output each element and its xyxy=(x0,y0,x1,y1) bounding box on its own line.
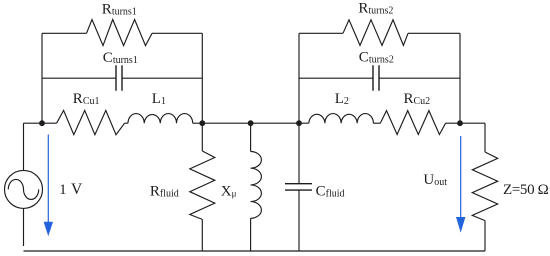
svg-text:Uout: Uout xyxy=(423,172,447,188)
wire: node D rail (right loop left vertical, x=299) xyxy=(298,33,300,123)
svg-text:L2: L2 xyxy=(335,91,349,107)
svg-text:Rturns2: Rturns2 xyxy=(358,1,393,17)
wire: node A rail (left loop left vertical, x=42) xyxy=(41,33,43,123)
arrow: output voltage direction (blue, down) xyxy=(456,136,465,233)
arrow: input voltage direction (blue, down) xyxy=(44,135,53,237)
inductor L2 xyxy=(309,114,374,124)
wire: main bus centre segment (node B to node D) xyxy=(202,122,308,124)
inductor L1 xyxy=(128,114,193,124)
svg-text:Cfluid: Cfluid xyxy=(316,184,345,200)
wire: left loop top segment (Rturns1 to node B rail) xyxy=(152,32,202,34)
wire: source bottom rail (AC source to bottom bus) xyxy=(23,208,25,246)
junction: node B (main bus / left loop right rail / Rfluid) xyxy=(199,120,205,126)
resistor Rfluid xyxy=(190,151,215,219)
junction: node C (main bus / Xmu) xyxy=(248,120,254,126)
svg-text:Rturns1: Rturns1 xyxy=(102,2,137,18)
wire: L1 lead to node B xyxy=(125,122,203,124)
wire: right loop top segment (to Rturns2) xyxy=(299,32,343,34)
voltage source V1 (AC, 1 V) xyxy=(5,170,43,208)
resistor Rturns2 xyxy=(343,20,408,46)
resistor RCu2 xyxy=(380,111,445,135)
wire: Cfluid leads (node D rail down) xyxy=(298,123,300,251)
capacitor Cturns2 (plates) xyxy=(373,65,379,91)
junction: node A (main bus / left loop left rail) xyxy=(39,120,45,126)
svg-text:RCu1: RCu1 xyxy=(73,91,100,107)
svg-text:Cturns1: Cturns1 xyxy=(103,50,138,66)
wire: node E rail (right loop right vertical, x=460) xyxy=(459,33,461,123)
wire: left loop middle segment (Cturns1 to node B rail) xyxy=(122,77,202,79)
wire: right loop top segment (Rturns2 to node E rail) xyxy=(408,32,460,34)
wire: bottom return bus xyxy=(24,250,486,252)
capacitor Cfluid (plates) xyxy=(285,184,312,190)
svg-text:Rfluid: Rfluid xyxy=(150,183,179,199)
svg-text:Xμ: Xμ xyxy=(221,184,237,200)
resistor Rturns1 xyxy=(87,20,153,46)
wire: Xmu leads xyxy=(250,123,252,251)
wire: Rfluid leads xyxy=(201,123,203,251)
wire: load rail top (corner down to Z) xyxy=(484,123,486,152)
wire: load rail bottom (Z to bottom bus) xyxy=(484,221,486,251)
resistor Z (load) xyxy=(472,152,497,221)
capacitor Cturns1 (plates) xyxy=(116,65,122,91)
wire: main bus left segment (source corner to RCu1) xyxy=(24,122,57,124)
resistor RCu1 xyxy=(57,110,125,134)
svg-text:RCu2: RCu2 xyxy=(404,91,431,107)
wire: main bus right segment (node E to load corner) xyxy=(446,122,485,124)
svg-text:L1: L1 xyxy=(152,91,166,107)
wire: left loop middle segment (node A rail to Cturns1) xyxy=(42,77,116,79)
inductor Xmu xyxy=(251,152,262,219)
wire: right loop middle segment (Cturns2 to node E rail) xyxy=(379,77,460,79)
wire: right loop middle segment (node D rail to Cturns2) xyxy=(299,77,373,79)
svg-text:1: 1 xyxy=(59,182,67,198)
svg-text:Z=50 Ω: Z=50 Ω xyxy=(503,182,549,198)
wire: left loop top segment (to Rturns1) xyxy=(42,32,87,34)
junction: node D (main bus / right loop left rail / Cfluid) xyxy=(296,120,302,126)
wire: node B rail (left loop right vertical, x=202.3) xyxy=(201,33,203,123)
svg-text:Cturns2: Cturns2 xyxy=(359,50,394,66)
svg-text:V: V xyxy=(71,181,83,198)
wire: L2 lead to RCu2 xyxy=(373,122,380,124)
junction: node E (main bus / right loop right rail) xyxy=(457,120,463,126)
wire: source top rail (left vertical, main bus to AC source) xyxy=(23,123,25,170)
